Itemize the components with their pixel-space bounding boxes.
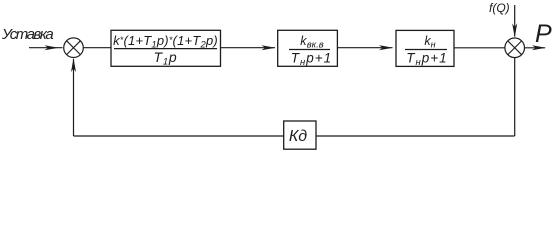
arrowhead into block W2 xyxy=(262,45,276,50)
svg-text:Tнр+1: Tнр+1 xyxy=(406,51,447,69)
wire feedback bottom left segment xyxy=(74,135,284,137)
wire S1 to block W1 xyxy=(83,47,111,49)
wire feedback up to S1 xyxy=(73,59,75,136)
summing junction S1 xyxy=(64,38,84,58)
svg-text:Tнр+1: Tнр+1 xyxy=(291,51,332,69)
wire output P xyxy=(525,47,546,49)
block W2 k_vk.v/(Tnp+1) xyxy=(278,30,338,68)
summing junction S2 xyxy=(505,38,525,58)
arrowhead into summing junction S1 xyxy=(45,45,59,50)
svg-text:Кд: Кд xyxy=(289,128,307,145)
block W3 k_n/(Tnp+1) xyxy=(396,30,454,68)
block W1 PID k*(1+T1p)*(1+T2p)/T1p xyxy=(111,30,221,67)
node Уставка label xyxy=(1,26,53,43)
block Kd feedback sensor xyxy=(284,121,316,149)
wire S2 down to feedback xyxy=(514,58,516,136)
svg-text:Уставка: Уставка xyxy=(1,26,53,43)
arrowhead into block W3 xyxy=(379,45,393,50)
svg-text:f(Q): f(Q) xyxy=(489,1,510,15)
wire W2 to W3 xyxy=(337,47,392,49)
wire setpoint input xyxy=(29,47,63,49)
node f(Q) label xyxy=(489,1,510,15)
wire W1 to W2 xyxy=(221,47,276,49)
arrowhead into S2 from top xyxy=(512,24,517,38)
arrowhead into S1 from bottom xyxy=(71,58,76,72)
node P output label xyxy=(535,20,552,48)
wire disturbance f(Q) input xyxy=(514,5,516,37)
wire W3 to summing junction S2 xyxy=(454,47,505,49)
svg-text:P: P xyxy=(535,20,552,48)
wire feedback bottom right segment xyxy=(316,135,515,137)
arrowhead output P xyxy=(532,45,546,50)
